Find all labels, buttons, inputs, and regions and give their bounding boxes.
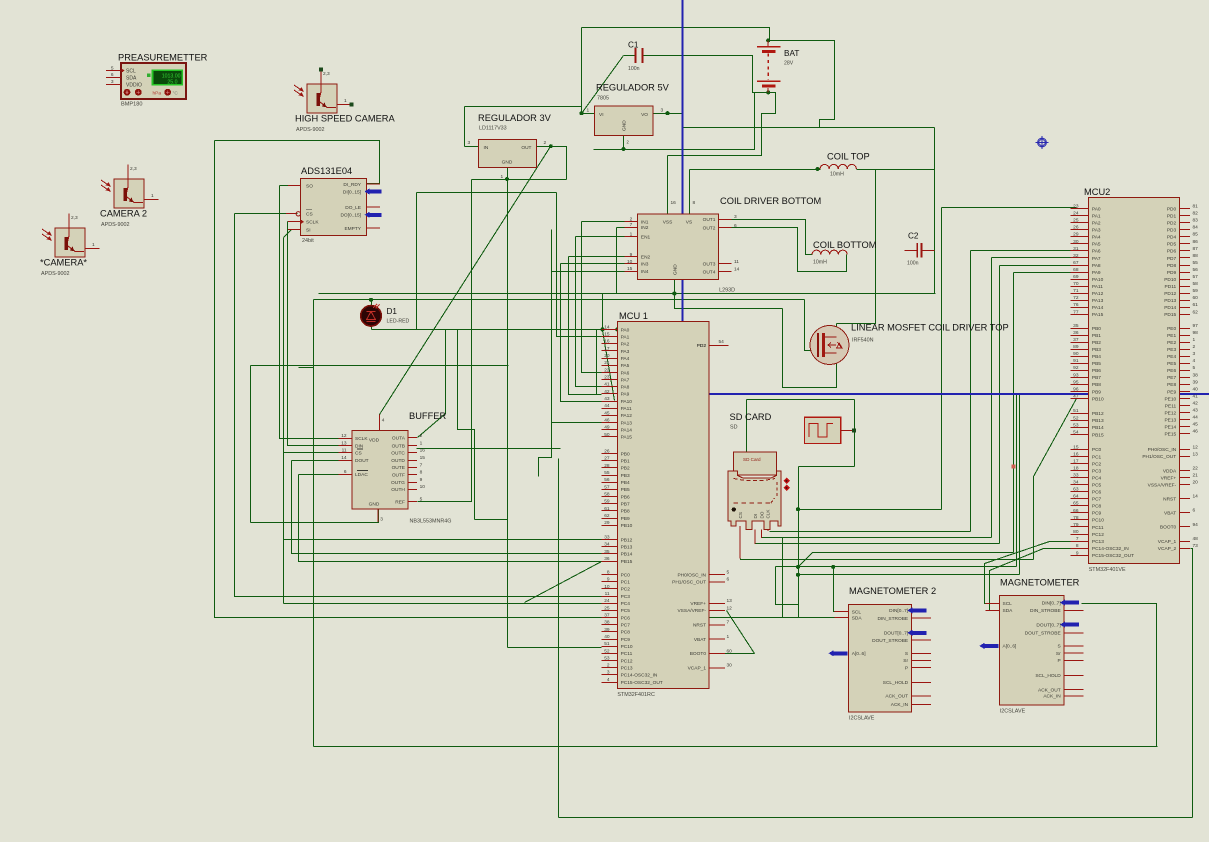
magnetometer I2CSLAVE MAGNETOMETER 2 (829, 586, 937, 721)
svg-text:92: 92 (1073, 365, 1079, 371)
svg-text:8: 8 (1076, 543, 1079, 549)
svg-text:58: 58 (1193, 281, 1199, 287)
svg-text:PA0: PA0 (1092, 206, 1101, 212)
wire column 416 (416, 193, 418, 330)
svg-text:PC7: PC7 (621, 623, 631, 629)
svg-text:APDS-9002: APDS-9002 (41, 271, 69, 277)
svg-text:14: 14 (734, 267, 740, 273)
svg-text:MAGNETOMETER 2: MAGNETOMETER 2 (849, 586, 936, 596)
svg-text:PC4: PC4 (621, 601, 631, 607)
wire column 250 (250, 366, 252, 523)
svg-text:VCAP_1: VCAP_1 (688, 666, 707, 672)
svg-text:OUTG: OUTG (391, 480, 405, 486)
svg-text:SD CARD: SD CARD (730, 412, 772, 422)
wire column 1019 (1019, 395, 1021, 575)
svg-text:PD10: PD10 (1164, 277, 1176, 283)
junction coil top (816, 167, 820, 171)
svg-text:VSS: VSS (663, 220, 673, 226)
svg-text:10: 10 (420, 484, 426, 490)
wire jog to SDA line (776, 567, 799, 618)
svg-text:87: 87 (1193, 246, 1199, 252)
svg-text:BMP180: BMP180 (121, 102, 142, 108)
svg-text:DIN_STROBE: DIN_STROBE (1030, 608, 1061, 614)
svg-text:PC11: PC11 (621, 651, 633, 657)
wire battery top feed (582, 28, 770, 41)
svg-text:57: 57 (604, 484, 610, 490)
wire D1 bottom rail to PA0 (372, 329, 618, 331)
svg-text:PA9: PA9 (1092, 270, 1101, 276)
svg-text:5: 5 (1193, 365, 1196, 371)
svg-text:PA6: PA6 (1092, 249, 1101, 255)
wire EN1 (576, 236, 638, 238)
svg-text:BUFFER: BUFFER (409, 411, 446, 421)
wire SO to buffer SCLK (280, 186, 339, 439)
svg-text:6: 6 (734, 223, 737, 229)
svg-text:68: 68 (1073, 267, 1079, 273)
svg-text:VI: VI (599, 112, 604, 118)
svg-text:93: 93 (1073, 372, 1079, 378)
svg-text:48: 48 (1193, 536, 1199, 542)
wire regulator 5V GND pin (623, 136, 625, 150)
svg-text:SO: SO (306, 183, 313, 189)
svg-text:PH0/OSC_IN: PH0/OSC_IN (1148, 447, 1177, 453)
svg-text:VO: VO (641, 112, 648, 118)
svg-text:43: 43 (604, 396, 610, 402)
wire rail 519 (475, 519, 508, 521)
svg-text:PB3: PB3 (621, 473, 630, 479)
svg-text:24: 24 (604, 598, 610, 604)
svg-text:97: 97 (1193, 323, 1199, 329)
svg-text:PB9: PB9 (621, 516, 630, 522)
svg-text:NRST: NRST (1163, 497, 1176, 503)
svg-text:61: 61 (604, 506, 610, 512)
svg-text:51: 51 (604, 641, 610, 647)
svg-text:34: 34 (1073, 480, 1079, 486)
svg-text:PC2: PC2 (1092, 461, 1102, 467)
svg-text:4: 4 (382, 418, 385, 424)
svg-text:13: 13 (727, 598, 733, 604)
svg-text:DOUT[0..7]: DOUT[0..7] (1036, 622, 1060, 628)
wire IN2 (617, 227, 638, 229)
svg-text:*CAMERA*: *CAMERA* (40, 258, 87, 268)
wire SD CLK rail (770, 531, 971, 533)
wire rail 400 (747, 399, 855, 401)
wire DI_RDY loop (215, 141, 380, 184)
svg-text:PC15-OSC32_OUT: PC15-OSC32_OUT (1092, 553, 1134, 559)
wire to MCU2 PA6 (971, 250, 1077, 252)
svg-text:2,3: 2,3 (71, 215, 78, 221)
svg-text:PB7: PB7 (1092, 375, 1101, 381)
svg-text:IN4: IN4 (641, 269, 649, 275)
svg-text:PB10: PB10 (621, 523, 633, 529)
wire EN2 to PA9 (569, 257, 602, 395)
svg-text:2,3: 2,3 (323, 71, 330, 77)
svg-text:24: 24 (1073, 211, 1079, 217)
svg-text:PE1: PE1 (1167, 333, 1176, 339)
bus stub DI[0..15] (368, 190, 382, 194)
svg-text:REGULADOR 5V: REGULADOR 5V (596, 83, 670, 93)
svg-text:DO_LE: DO_LE (345, 205, 361, 211)
svg-text:PA2: PA2 (1092, 221, 1101, 227)
wire ADS SO pin (280, 185, 301, 187)
svg-text:SCL_HOLD: SCL_HOLD (883, 680, 909, 686)
svg-text:S: S (905, 651, 908, 657)
svg-text:55: 55 (604, 470, 610, 476)
svg-text:10mH: 10mH (813, 260, 827, 266)
svg-text:3: 3 (607, 670, 610, 676)
svg-text:78: 78 (1073, 515, 1079, 521)
svg-text:VSSA/VREF-: VSSA/VREF- (1148, 482, 1177, 488)
svg-text:SD Card: SD Card (743, 457, 761, 462)
svg-text:PB2: PB2 (621, 466, 630, 472)
wire drain to coil top (837, 170, 876, 324)
wire SD column down (798, 510, 800, 605)
svg-text:GND: GND (673, 264, 679, 275)
ADC ADS131E04 (286, 166, 380, 244)
svg-text:53: 53 (604, 655, 610, 661)
svg-text:25: 25 (1073, 218, 1079, 224)
svg-text:BOOT0: BOOT0 (690, 651, 707, 657)
svg-text:SCL: SCL (852, 609, 862, 615)
wire bottom rail (314, 746, 1158, 748)
svg-text:1: 1 (344, 98, 347, 104)
svg-text:VREF+: VREF+ (690, 601, 706, 607)
inductor COIL TOP 10mH (820, 152, 870, 178)
svg-text:PB6: PB6 (621, 494, 630, 500)
bus stub DO[0..15] (368, 213, 382, 217)
svg-text:8: 8 (420, 470, 423, 476)
svg-text:CLK: CLK (766, 509, 771, 519)
capacitor C2 100n (907, 232, 922, 267)
wire regulator 3V GND pin (507, 168, 509, 180)
svg-text:REF: REF (395, 500, 405, 506)
svg-text:PE10: PE10 (1164, 396, 1176, 402)
wire C2 left lead (905, 250, 918, 252)
svg-text:VBAT: VBAT (694, 637, 706, 643)
svg-text:55: 55 (1193, 260, 1199, 266)
svg-text:VDDIO: VDDIO (126, 82, 142, 88)
svg-text:7805: 7805 (597, 96, 609, 102)
svg-text:PA14: PA14 (621, 428, 633, 434)
wire IN riser (464, 107, 466, 147)
wire D1 anode stub (371, 300, 373, 307)
svg-text:PD4: PD4 (1167, 235, 1177, 241)
SD card module (728, 412, 790, 559)
junction D1 (369, 298, 373, 302)
svg-text:PB14: PB14 (621, 552, 633, 558)
svg-text:1: 1 (630, 232, 633, 238)
wire L293D GND to source rail (675, 280, 783, 309)
svg-text:35: 35 (604, 549, 610, 555)
junction BAT+ (766, 38, 770, 42)
svg-text:PA10: PA10 (1092, 277, 1104, 283)
svg-text:PD0: PD0 (1167, 206, 1177, 212)
wire BAT- to VSS rail (668, 93, 776, 156)
svg-text:PA3: PA3 (1092, 228, 1101, 234)
wire diagonal OUT to buffer VDD (380, 147, 551, 431)
svg-text:ACK_IN: ACK_IN (891, 702, 909, 708)
svg-text:37: 37 (1073, 337, 1079, 343)
svg-text:83: 83 (1193, 218, 1199, 224)
terminal high speed camera pin 2,3 (319, 68, 323, 72)
svg-text:40: 40 (604, 634, 610, 640)
wire C1 left lead (624, 55, 636, 57)
voltage regulator 7805 REGULADOR 5V (587, 83, 670, 145)
svg-text:7: 7 (727, 620, 730, 626)
svg-text:47: 47 (1073, 393, 1079, 399)
svg-text:PB15: PB15 (1092, 432, 1104, 438)
LED D1 LED-RED (361, 304, 410, 326)
svg-text:32: 32 (1073, 253, 1079, 259)
svg-text:PD3: PD3 (1167, 228, 1177, 234)
svg-text:PC9: PC9 (1092, 511, 1102, 517)
svg-text:PE3: PE3 (1167, 347, 1176, 353)
svg-text:SDA: SDA (126, 75, 137, 81)
svg-text:15: 15 (1073, 444, 1079, 450)
svg-text:DO[0..15]: DO[0..15] (340, 213, 361, 219)
wire SD feed drop (746, 400, 748, 453)
svg-text:APDS-9002: APDS-9002 (296, 127, 324, 133)
svg-text:OUTA: OUTA (392, 436, 406, 442)
transistor MOSFET IRF540N LINEAR MOSFET COIL DRIVER TOP (810, 323, 1009, 365)
svg-text:PC5: PC5 (621, 608, 631, 614)
svg-text:IN1: IN1 (641, 220, 649, 226)
svg-text:PE15: PE15 (1164, 432, 1176, 438)
svg-text:84: 84 (1193, 225, 1199, 231)
svg-text:P: P (1057, 658, 1060, 664)
wire column 596 (596, 330, 598, 395)
svg-text:25.0: 25.0 (167, 80, 177, 86)
svg-text:PD12: PD12 (1164, 291, 1176, 297)
svg-text:°C: °C (173, 90, 179, 96)
svg-text:1: 1 (420, 440, 423, 446)
svg-text:IN: IN (484, 145, 489, 151)
svg-text:85: 85 (1193, 232, 1199, 238)
svg-text:PA2: PA2 (621, 342, 630, 348)
wire SD DI rail (755, 543, 1000, 545)
svg-text:EN2: EN2 (641, 255, 651, 261)
wire ADS CS pin (235, 213, 298, 215)
svg-text:PD8: PD8 (1167, 263, 1177, 269)
wire column 970 (970, 251, 972, 532)
svg-text:PB5: PB5 (621, 487, 630, 493)
wire 5V rail (683, 127, 935, 129)
wire column 559 (558, 459, 560, 818)
wire column 1013 (1013, 273, 1015, 553)
svg-text:BOOT0: BOOT0 (1160, 525, 1177, 531)
MCU U1 STM32F401RC MCU 1 (602, 311, 733, 698)
wire D1 cathode stub (371, 326, 373, 330)
wire regulator 3V IN pin (465, 146, 479, 148)
svg-text:COIL BOTTOM: COIL BOTTOM (813, 240, 877, 250)
svg-text:100n: 100n (628, 66, 640, 72)
wire SCLK to buffer DIN (288, 222, 339, 446)
svg-text:BAT: BAT (784, 49, 799, 58)
svg-text:IRF540N: IRF540N (852, 338, 874, 344)
svg-text:41: 41 (1193, 393, 1199, 399)
svg-text:SD: SD (730, 425, 738, 431)
junction PA0 riser (601, 327, 605, 331)
svg-text:100n: 100n (907, 260, 919, 266)
wire VI pin (582, 113, 595, 115)
svg-text:66: 66 (1073, 508, 1079, 514)
svg-text:A[0..6]: A[0..6] (1003, 644, 1017, 650)
junction BAT- (766, 90, 770, 94)
svg-text:OUTB: OUTB (392, 443, 405, 449)
magnetometer I2CSLAVE MAGNETOMETER (979, 578, 1083, 715)
wire PA0 riser (602, 294, 604, 330)
svg-text:69: 69 (1073, 274, 1079, 280)
svg-text:LDAC: LDAC (355, 472, 368, 478)
svg-text:16: 16 (420, 448, 426, 454)
svg-text:VSSA/VREF-: VSSA/VREF- (677, 608, 706, 614)
svg-text:1: 1 (587, 108, 590, 114)
svg-text:11: 11 (734, 259, 739, 265)
svg-text:79: 79 (1073, 522, 1079, 528)
svg-text:60: 60 (727, 648, 733, 654)
driver L293D COIL DRIVER BOTTOM (624, 196, 821, 294)
svg-text:PB5: PB5 (1092, 361, 1101, 367)
svg-text:56: 56 (604, 477, 610, 483)
wire VI riser (581, 28, 583, 114)
svg-text:PD14: PD14 (1164, 305, 1176, 311)
wire buffer REF feed (418, 180, 472, 502)
svg-text:80: 80 (1073, 529, 1079, 535)
svg-text:S: S (1057, 644, 1060, 650)
wire SD CS rail (741, 559, 1034, 560)
svg-text:PB14: PB14 (1092, 425, 1104, 431)
svg-text:7: 7 (630, 222, 633, 228)
svg-text:PC7: PC7 (1092, 497, 1102, 503)
svg-text:61: 61 (1193, 302, 1199, 308)
svg-text:PB4: PB4 (1092, 354, 1101, 360)
svg-text:EMPTY: EMPTY (344, 226, 361, 232)
wire to PC4 (284, 603, 602, 605)
svg-text:PE9: PE9 (1167, 389, 1176, 395)
svg-text:62: 62 (604, 513, 610, 519)
svg-text:43: 43 (1193, 408, 1199, 414)
wire OUT2 to coil bottom (719, 228, 847, 272)
svg-text:PB1: PB1 (621, 459, 630, 465)
svg-text:DOUT[0..7]: DOUT[0..7] (884, 631, 908, 637)
svg-text:2: 2 (1193, 344, 1196, 350)
junction rail567 right (831, 565, 835, 569)
svg-text:37: 37 (604, 612, 610, 618)
svg-text:98: 98 (1193, 330, 1199, 336)
svg-text:54: 54 (719, 339, 725, 345)
wire riser 854 (854, 400, 856, 467)
svg-text:PA14: PA14 (1092, 305, 1104, 311)
svg-text:SCL_HOLD: SCL_HOLD (1035, 673, 1061, 679)
svg-text:PB3: PB3 (1092, 347, 1101, 353)
svg-text:PH0/OSC_IN: PH0/OSC_IN (677, 572, 706, 578)
wire column 313 (313, 300, 315, 747)
wire column 551 (539, 230, 552, 477)
svg-text:PC0: PC0 (621, 572, 631, 578)
svg-text:PD15: PD15 (1164, 312, 1176, 318)
svg-text:9: 9 (420, 477, 423, 483)
wire IN3 to PA10 (561, 264, 602, 402)
terminal high speed camera pin 1 (350, 103, 354, 107)
wire MAG DIN loop (1082, 604, 1157, 747)
svg-text:10: 10 (627, 259, 633, 265)
svg-text:14: 14 (604, 324, 610, 330)
svg-text:5: 5 (727, 570, 730, 576)
wire to PC10 (508, 647, 602, 649)
svg-text:PB8: PB8 (1092, 382, 1101, 388)
svg-text:15: 15 (627, 266, 633, 272)
svg-text:1: 1 (501, 174, 504, 180)
svg-text:PC4: PC4 (1092, 475, 1102, 481)
svg-text:IN2: IN2 (641, 225, 649, 231)
svg-text:PD2: PD2 (697, 343, 707, 349)
svg-text:13: 13 (1193, 451, 1199, 457)
svg-text:MCU 1: MCU 1 (619, 311, 648, 321)
svg-text:49: 49 (604, 425, 610, 431)
svg-text:PD11: PD11 (1165, 284, 1177, 290)
svg-text:94: 94 (1193, 522, 1199, 528)
svg-text:22: 22 (1193, 465, 1199, 471)
svg-text:GND: GND (622, 120, 628, 131)
svg-text:28: 28 (604, 463, 610, 469)
wire to MCU2 PA7 (992, 257, 1077, 259)
svg-text:HIGH SPEED CAMERA: HIGH SPEED CAMERA (295, 114, 395, 124)
svg-text:64: 64 (1073, 494, 1079, 500)
wire LDAC to PB15 (299, 475, 602, 562)
svg-text:38: 38 (1193, 372, 1199, 378)
svg-text:2: 2 (627, 140, 630, 145)
svg-text:SCLK: SCLK (306, 220, 319, 226)
svg-text:PB12: PB12 (621, 537, 633, 543)
svg-text:70: 70 (1073, 281, 1079, 287)
svg-text:28V: 28V (784, 61, 794, 67)
svg-text:17: 17 (1073, 458, 1079, 464)
svg-text:PE5: PE5 (1167, 361, 1176, 367)
svg-text:PC6: PC6 (621, 615, 631, 621)
wire buffer GND (251, 510, 379, 523)
wire rail 575 (799, 574, 1020, 576)
photo camera APDS-9002 *CAMERA* (40, 214, 100, 278)
svg-text:DI_RDY: DI_RDY (343, 182, 361, 188)
svg-text:MCU2: MCU2 (1084, 187, 1110, 197)
svg-text:DIN[0..7]: DIN[0..7] (1042, 600, 1061, 606)
svg-text:46: 46 (1193, 429, 1199, 435)
svg-text:16: 16 (1073, 451, 1079, 457)
svg-text:91: 91 (1073, 358, 1079, 364)
svg-text:8: 8 (693, 200, 696, 206)
svg-text:9: 9 (1076, 550, 1079, 556)
svg-text:7: 7 (1076, 536, 1079, 542)
svg-text:PB4: PB4 (621, 480, 630, 486)
svg-text:3: 3 (380, 516, 383, 522)
svg-text:3: 3 (111, 79, 114, 85)
svg-text:CAMERA 2: CAMERA 2 (100, 209, 147, 219)
svg-text:PA8: PA8 (1092, 263, 1101, 269)
svg-text:PD1: PD1 (1167, 213, 1177, 219)
svg-text:71: 71 (1073, 288, 1079, 294)
svg-text:VS: VS (686, 220, 692, 226)
wire to MAG2 SCL (834, 567, 849, 612)
junction SD (796, 507, 800, 511)
wire drop 782 (782, 538, 784, 618)
wire PD2 stub (710, 345, 729, 347)
svg-text:PB7: PB7 (621, 502, 630, 508)
wire rail 179 (472, 179, 567, 181)
svg-text:46: 46 (604, 417, 610, 423)
svg-text:OUT4: OUT4 (703, 270, 716, 276)
svg-text:OUT: OUT (521, 145, 531, 151)
wire VO to rail (654, 114, 683, 128)
